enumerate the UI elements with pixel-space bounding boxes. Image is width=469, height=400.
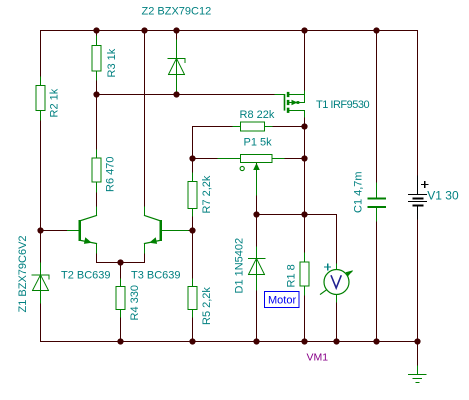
svg-text:R7 2,2k: R7 2,2k [201,175,213,213]
wire voltmeter bottom [336,295,338,342]
wire V1 top [417,31,419,195]
motor label [265,292,300,308]
wire T2 emitter column [96,244,98,263]
wire node line to voltmeter [257,214,337,216]
resistor R7 [188,173,213,216]
resistor R5 [188,279,213,325]
potentiometer P1 [218,137,284,196]
transistor T2 [61,207,111,282]
svg-text:R6 470: R6 470 [105,157,117,192]
svg-text:R2 1k: R2 1k [49,88,61,117]
resistor R1 [286,253,310,295]
svg-text:T3 BC639: T3 BC639 [131,270,181,282]
svg-text:VM1: VM1 [307,352,329,364]
resistor R2 [36,77,61,120]
wire T2 base [41,230,80,232]
svg-text:P1 5k: P1 5k [244,137,273,149]
wire T3 emitter column [144,244,146,263]
svg-text:D1 1N5402: D1 1N5402 [234,238,246,294]
svg-text:V1 30: V1 30 [427,189,459,203]
wire T1 drain column [304,111,306,342]
svg-text:Motor: Motor [268,295,296,307]
wire gate line [97,94,285,96]
zener Z2 [142,6,212,95]
svg-text:R3 1k: R3 1k [106,48,118,77]
wire P1 wiper branch [256,162,258,215]
svg-text:Z1 BZX79C6V2: Z1 BZX79C6V2 [17,235,29,312]
wire C1 bottom [376,207,378,341]
ground [409,366,427,383]
wire T3 base [161,230,193,232]
svg-text:T2 BC639: T2 BC639 [61,270,111,282]
battery V1 [409,176,459,219]
wire R3/R6/T2-collector column [96,31,98,216]
wire top rail [41,30,418,32]
svg-text:Z2 BZX79C12: Z2 BZX79C12 [142,6,212,18]
svg-text:R8 22k: R8 22k [240,109,275,121]
wire emitter joining segment [97,262,145,264]
transistor T3 [131,207,188,282]
wire V1 bottom to ground [417,206,419,367]
wire R7/R5 column [192,127,194,342]
wire T3 collector column [144,31,146,216]
resistor R8 [233,109,275,131]
wire R8 right [265,126,305,128]
wire D1 branch [256,215,258,342]
wire Z2 branch [176,31,178,95]
capacitor C1 [353,171,386,221]
svg-text:R1 8: R1 8 [286,264,298,287]
zener Z1 [17,235,49,312]
diode D1 [234,238,266,294]
wire bottom rail [41,341,418,343]
resistor R4 [116,279,141,321]
wire R4 branch [120,263,122,342]
resistor R3 [92,36,118,80]
resistor R6 [92,150,117,192]
voltmeter VM1 [307,264,354,364]
wire R8 left [193,126,241,128]
mosfet T1 [275,91,369,117]
wire left column [40,31,42,342]
svg-text:T1 IRF9530: T1 IRF9530 [316,99,369,111]
svg-text:R5 2,2k: R5 2,2k [201,287,213,325]
wire C1 top [376,31,378,199]
svg-text:C1 4,7m: C1 4,7m [353,171,365,213]
wire P1 right [272,158,305,160]
wire voltmeter top [336,215,338,270]
svg-text:R4 330: R4 330 [129,285,141,320]
wire T1 source column [304,31,306,103]
wire P1 left [193,158,241,160]
